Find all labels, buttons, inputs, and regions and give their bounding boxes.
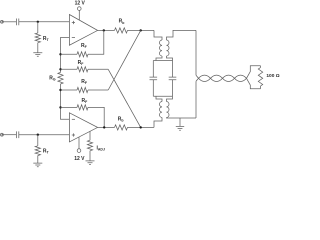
wire: bottom capacitor rail [153, 95, 172, 97]
capacitor C2 (bottom input) [16, 131, 18, 138]
ground (IADJ) [86, 161, 95, 165]
resistor RG (gain) [58, 72, 63, 84]
wire: braid to load bottom [247, 78, 261, 89]
transformer T2 secondary (bottom right winding) [167, 96, 173, 101]
ground (top input) [33, 53, 42, 57]
resistor RF (cross-coupling to U2 output) [61, 68, 78, 70]
svg-text:RF: RF [78, 60, 85, 66]
wire: U1 output [98, 29, 115, 31]
svg-text:RT: RT [43, 148, 50, 154]
resistor Rb (top) [115, 28, 128, 33]
transformer T1 secondary (top right winding) [167, 40, 170, 56]
wire: line conductor up [195, 30, 197, 75]
node: top Rb junction [140, 29, 142, 31]
node: U2 output junction [103, 126, 105, 128]
wire [3, 134, 16, 136]
wire [3, 21, 16, 23]
wire [19, 21, 70, 23]
node: U1 output junction [103, 29, 105, 31]
transformer T1 primary (top left winding) [154, 30, 162, 40]
wire: U2 output [98, 126, 115, 128]
wire: diagonal row B to bottom Rb junction [108, 69, 141, 127]
op-amp U1 (top) [69, 15, 97, 46]
resistor RT (bottom input termination) [37, 135, 39, 146]
svg-text:RF: RF [81, 43, 88, 49]
resistor RL 100 ohm [258, 68, 262, 87]
node: top +input junction [37, 21, 39, 23]
resistor RF (U2 feedback) [61, 106, 78, 108]
ground (bottom input) [33, 163, 42, 167]
resistor RF (cross-coupling to U1 output) [61, 89, 78, 91]
resistor RF (U1 feedback) [61, 53, 78, 55]
svg-text:Rb: Rb [119, 19, 125, 25]
twisted pair strand A [196, 75, 247, 81]
capacitor C1 (top input) [16, 19, 18, 26]
svg-text:12 V: 12 V [74, 156, 85, 162]
svg-text:100 Ω: 100 Ω [266, 73, 279, 79]
node C (row C tap) [59, 89, 61, 91]
wire: braid to load top [247, 66, 261, 79]
transformer T2 primary (bottom left winding) [156, 96, 162, 101]
input terminal J1 (top) [1, 20, 4, 23]
capacitor C3 (left filter) [150, 61, 158, 97]
svg-text:RG: RG [49, 75, 56, 81]
node A (row A tap) [59, 53, 61, 55]
svg-text:12 V: 12 V [75, 1, 86, 7]
wire: top capacitor rail [153, 60, 172, 62]
svg-text:RF: RF [82, 98, 89, 104]
resistor IADJ (bias adjust) [89, 131, 91, 140]
input terminal J2 (bottom) [1, 133, 4, 136]
op-amp U2 (bottom) [69, 113, 97, 142]
resistor Rb (bottom) [115, 125, 128, 130]
svg-text:RT: RT [43, 36, 50, 42]
wire: U1 inverting input to rail [61, 38, 70, 73]
node: bottom Rb junction [140, 126, 142, 128]
wire: diagonal row C to top Rb junction [108, 30, 141, 90]
svg-text:IADJ: IADJ [97, 145, 105, 151]
wire: line conductor down [195, 81, 197, 118]
12V supply terminal (bottom) [77, 149, 81, 153]
resistor RT (top input termination) [37, 22, 39, 33]
svg-text:RF: RF [81, 79, 88, 85]
twisted pair strand B [196, 75, 247, 81]
wire [19, 134, 70, 136]
node D (row D tap) [59, 106, 61, 108]
node B (row B tap) [59, 68, 61, 70]
svg-text:Rb: Rb [118, 116, 124, 122]
node: bottom +input junction [37, 134, 39, 136]
capacitor C4 (right filter) [169, 61, 177, 97]
ground (line side) [179, 118, 181, 126]
